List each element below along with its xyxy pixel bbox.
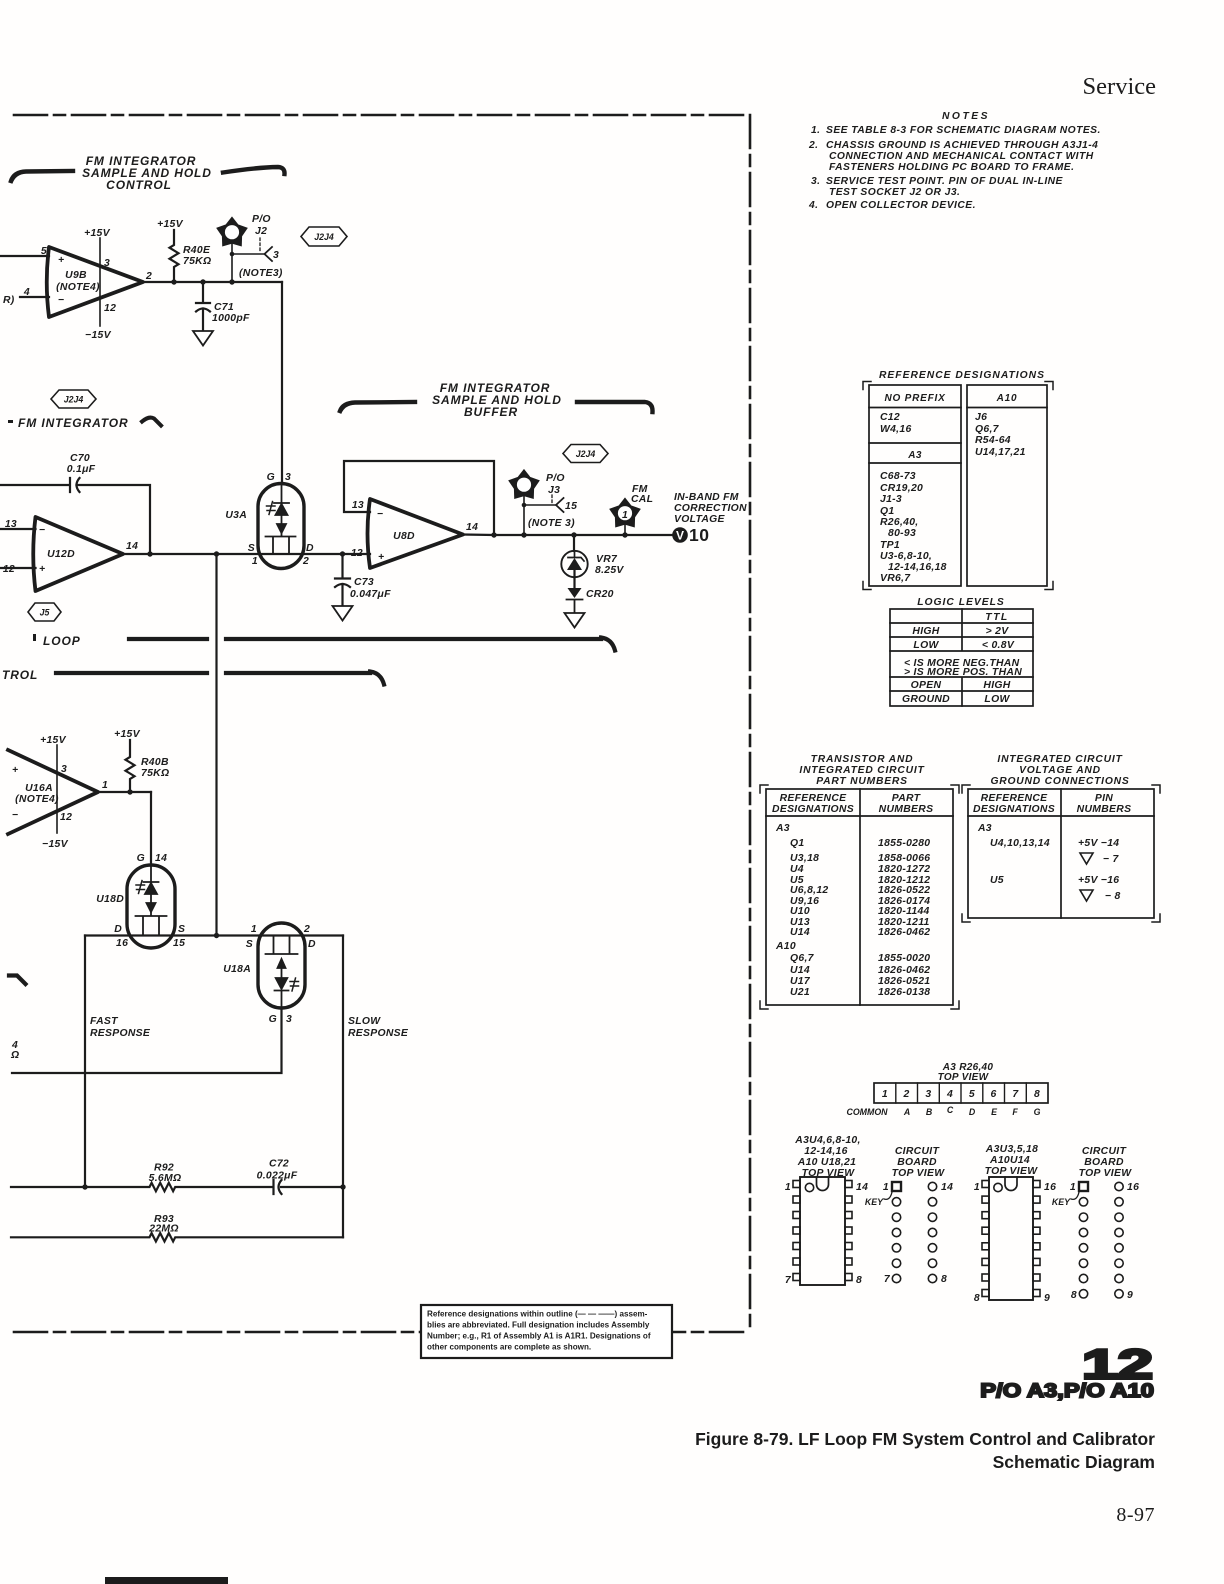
resistor R40E 75K xyxy=(170,230,179,282)
svg-text:1.: 1. xyxy=(811,125,821,136)
svg-text:Number; e.g., R1 of Assembly A: Number; e.g., R1 of Assembly A1 is A1R1.… xyxy=(427,1332,651,1341)
svg-text:22MΩ: 22MΩ xyxy=(148,1224,179,1235)
svg-text:U17: U17 xyxy=(790,976,811,987)
wire pin 5 input U9B xyxy=(0,255,49,257)
svg-text:J5: J5 xyxy=(40,608,50,618)
svg-text:3: 3 xyxy=(285,472,291,483)
svg-text:DESIGNATIONS: DESIGNATIONS xyxy=(973,804,1055,815)
svg-text:R26,40,: R26,40, xyxy=(880,517,919,528)
svg-text:J1-3: J1-3 xyxy=(880,494,902,505)
svg-text:SLOW: SLOW xyxy=(348,1016,381,1027)
svg-text:U4: U4 xyxy=(790,864,804,875)
svg-text:R92: R92 xyxy=(154,1163,174,1174)
svg-text:16: 16 xyxy=(1127,1182,1139,1193)
svg-text:(NOTE4): (NOTE4) xyxy=(15,794,59,805)
svg-text:+: + xyxy=(378,552,384,563)
svg-text:1826-0462: 1826-0462 xyxy=(878,965,930,976)
node junction dots xyxy=(171,279,234,284)
svg-text:TP1: TP1 xyxy=(880,540,900,551)
svg-text:15: 15 xyxy=(565,501,577,512)
svg-text:0.047μF: 0.047μF xyxy=(350,589,391,600)
svg-text:OPEN: OPEN xyxy=(911,680,942,691)
svg-text:P/O: P/O xyxy=(546,473,565,484)
wire pin 13 input U12D xyxy=(0,528,36,530)
svg-text:1820-1272: 1820-1272 xyxy=(878,864,930,875)
svg-text:A: A xyxy=(903,1107,910,1117)
svg-text:U5: U5 xyxy=(990,875,1004,886)
svg-text:14: 14 xyxy=(155,853,167,864)
svg-text:8: 8 xyxy=(1071,1290,1077,1301)
signal flag V10 xyxy=(672,527,688,543)
svg-text:14: 14 xyxy=(466,522,478,533)
wire pin 4 input U9B xyxy=(20,296,49,298)
svg-text:LOW: LOW xyxy=(913,640,939,651)
svg-text:TOP VIEW: TOP VIEW xyxy=(985,1166,1039,1177)
svg-text:J2: J2 xyxy=(255,226,267,237)
op-amp U8D xyxy=(368,499,464,568)
svg-text:BUFFER: BUFFER xyxy=(464,405,518,419)
feedback wire U8D pin13 xyxy=(344,461,494,535)
svg-text:LOW: LOW xyxy=(984,694,1010,705)
svg-text:12-14,16: 12-14,16 xyxy=(804,1146,847,1157)
svg-text:VR7: VR7 xyxy=(596,554,618,565)
svg-text:1: 1 xyxy=(102,780,108,791)
svg-text:J3: J3 xyxy=(548,485,560,496)
svg-text:4: 4 xyxy=(23,287,30,298)
svg-text:12: 12 xyxy=(351,548,363,559)
svg-text:S: S xyxy=(248,543,255,554)
svg-text:+15V: +15V xyxy=(84,228,111,239)
capacitor C70 0.1uF feedback xyxy=(0,478,150,554)
svg-text:CR20: CR20 xyxy=(586,589,614,600)
svg-text:R40E: R40E xyxy=(183,245,211,256)
svg-text:5: 5 xyxy=(41,246,47,257)
svg-text:9: 9 xyxy=(1127,1290,1133,1301)
svg-text:BOARD: BOARD xyxy=(897,1157,937,1168)
svg-text:NUMBERS: NUMBERS xyxy=(1077,804,1132,815)
svg-text:PIN: PIN xyxy=(1095,793,1113,804)
heading FM INTEGRATOR SAMPLE AND HOLD BUFFER xyxy=(432,381,562,419)
svg-text:+15V: +15V xyxy=(157,219,184,230)
svg-text:9: 9 xyxy=(1044,1293,1050,1304)
svg-text:P/O: P/O xyxy=(252,214,271,225)
svg-text:VOLTAGE AND: VOLTAGE AND xyxy=(1019,765,1101,776)
svg-text:U4,10,13,14: U4,10,13,14 xyxy=(990,838,1050,849)
svg-text:U6,8,12: U6,8,12 xyxy=(790,885,829,896)
svg-text:75KΩ: 75KΩ xyxy=(183,256,211,267)
svg-text:U18A: U18A xyxy=(223,964,251,975)
svg-text:C73: C73 xyxy=(354,577,374,588)
svg-text:U16A: U16A xyxy=(25,783,53,794)
resistor R92 5.6M with capacitor C72 in series xyxy=(11,1180,343,1194)
capacitor C73 0.047uF xyxy=(335,554,350,606)
svg-text:GROUND CONNECTIONS: GROUND CONNECTIONS xyxy=(990,776,1129,787)
connector pin 15 of J3 xyxy=(551,495,553,503)
svg-text:−15V: −15V xyxy=(42,839,69,850)
svg-text:Q1: Q1 xyxy=(790,838,804,849)
circuit board top view (14 pin) xyxy=(892,1146,946,1179)
svg-text:blies are abbreviated. Full de: blies are abbreviated. Full designation … xyxy=(427,1321,650,1330)
svg-text:CR19,20: CR19,20 xyxy=(880,483,923,494)
svg-text:TOP VIEW: TOP VIEW xyxy=(892,1168,946,1179)
svg-text:Q6,7: Q6,7 xyxy=(975,424,1000,435)
svg-text:TEST SOCKET J2 OR J3.: TEST SOCKET J2 OR J3. xyxy=(829,187,960,198)
DIP-14 package top view xyxy=(794,1135,860,1179)
svg-text:Ω: Ω xyxy=(10,1050,19,1061)
svg-text:C70: C70 xyxy=(70,453,90,464)
svg-text:W4,16: W4,16 xyxy=(880,424,912,435)
svg-text:Service: Service xyxy=(1083,73,1157,100)
svg-text:U10: U10 xyxy=(790,906,810,917)
flag J5 hexagon xyxy=(28,603,61,621)
svg-text:B: B xyxy=(926,1107,933,1117)
svg-text:Q6,7: Q6,7 xyxy=(790,953,815,964)
svg-text:+15V: +15V xyxy=(114,729,141,740)
DIP-16 package top view xyxy=(985,1144,1039,1177)
svg-text:Q1: Q1 xyxy=(880,506,894,517)
svg-text:G: G xyxy=(267,472,275,483)
svg-text:U3A: U3A xyxy=(225,510,247,521)
svg-text:R54-64: R54-64 xyxy=(975,435,1011,446)
flag J2J4 hexagon (mid) xyxy=(51,390,96,408)
svg-text:NUMBERS: NUMBERS xyxy=(879,804,934,815)
svg-text:KEY: KEY xyxy=(865,1197,884,1207)
svg-text:3.: 3. xyxy=(811,176,821,187)
wire U9B output node xyxy=(143,281,282,283)
svg-text:12: 12 xyxy=(3,564,15,575)
svg-text:V: V xyxy=(676,529,684,543)
svg-text:LOOP: LOOP xyxy=(43,634,81,648)
svg-text:NO PREFIX: NO PREFIX xyxy=(884,393,946,404)
resistor pack A3 R26,40 top view xyxy=(938,1062,994,1083)
svg-text:(NOTE3): (NOTE3) xyxy=(239,268,283,279)
wire pin 12 input U12D xyxy=(0,567,36,569)
svg-text:1: 1 xyxy=(251,924,257,935)
svg-text:TOP VIEW: TOP VIEW xyxy=(1079,1168,1133,1179)
svg-text:CIRCUIT: CIRCUIT xyxy=(895,1146,941,1157)
svg-text:U14: U14 xyxy=(790,927,810,938)
svg-text:S: S xyxy=(246,939,253,950)
svg-text:REFERENCE: REFERENCE xyxy=(981,793,1049,804)
svg-text:4.: 4. xyxy=(808,200,819,211)
svg-text:> 2V: > 2V xyxy=(986,626,1010,637)
svg-text:1855-0280: 1855-0280 xyxy=(878,838,930,849)
svg-text:CIRCUIT: CIRCUIT xyxy=(1082,1146,1128,1157)
svg-text:4: 4 xyxy=(946,1089,953,1100)
svg-text:8: 8 xyxy=(856,1275,862,1286)
svg-text:13: 13 xyxy=(352,500,364,511)
zener VR7 8.25V xyxy=(573,535,575,551)
wire FET row xyxy=(85,934,343,936)
svg-text:INTEGRATED CIRCUIT: INTEGRATED CIRCUIT xyxy=(997,754,1123,765)
svg-text:SERVICE TEST POINT. PIN OF DUA: SERVICE TEST POINT. PIN OF DUAL IN-LINE xyxy=(826,176,1064,187)
svg-text:1826-0138: 1826-0138 xyxy=(878,987,930,998)
svg-text:3: 3 xyxy=(286,1014,292,1025)
svg-text:U3-6,8-10,: U3-6,8-10, xyxy=(880,551,932,562)
svg-text:14: 14 xyxy=(856,1182,868,1193)
svg-text:U9B: U9B xyxy=(65,270,87,281)
svg-text:TRANSISTOR AND: TRANSISTOR AND xyxy=(811,754,914,765)
svg-text:U21: U21 xyxy=(790,987,810,998)
svg-text:1826-0521: 1826-0521 xyxy=(878,976,930,987)
svg-text:J2J4: J2J4 xyxy=(576,449,596,459)
svg-text:U14,17,21: U14,17,21 xyxy=(975,447,1026,458)
wire U8D output node xyxy=(463,533,672,536)
svg-text:1826-0462: 1826-0462 xyxy=(878,927,930,938)
svg-text:J6: J6 xyxy=(975,412,987,423)
svg-text:C: C xyxy=(947,1105,954,1115)
svg-text:> IS MORE POS. THAN: > IS MORE POS. THAN xyxy=(904,667,1022,678)
svg-text:1: 1 xyxy=(252,556,258,567)
svg-text:14: 14 xyxy=(941,1182,953,1193)
svg-text:S: S xyxy=(178,924,185,935)
FET switch U18A xyxy=(258,923,305,1008)
svg-text:13: 13 xyxy=(5,519,17,530)
svg-text:14: 14 xyxy=(126,541,138,552)
svg-text:12-14,16,18: 12-14,16,18 xyxy=(888,562,947,573)
svg-text:2.: 2. xyxy=(808,140,819,151)
svg-text:0.022μF: 0.022μF xyxy=(257,1171,298,1182)
svg-text:CONTROL: CONTROL xyxy=(106,178,172,192)
svg-text:− 7: − 7 xyxy=(1103,854,1120,865)
svg-text:8: 8 xyxy=(1034,1089,1040,1100)
svg-text:A3: A3 xyxy=(907,450,922,461)
svg-text:TROL: TROL xyxy=(2,668,38,682)
svg-text:J2J4: J2J4 xyxy=(314,232,334,242)
svg-text:J2J4: J2J4 xyxy=(64,395,84,405)
op-amp U12D xyxy=(33,517,123,591)
svg-text:VR6,7: VR6,7 xyxy=(880,573,911,584)
svg-text:VOLTAGE: VOLTAGE xyxy=(674,514,726,525)
svg-text:A10U14: A10U14 xyxy=(989,1155,1030,1166)
svg-text:HIGH: HIGH xyxy=(912,626,939,637)
svg-text:PART: PART xyxy=(892,793,922,804)
svg-text:6: 6 xyxy=(991,1089,997,1100)
svg-text:CORRECTION: CORRECTION xyxy=(674,503,747,514)
circuit board top view (16 pin) xyxy=(1079,1146,1133,1179)
svg-text:1855-0020: 1855-0020 xyxy=(878,953,930,964)
svg-text:+5V −16: +5V −16 xyxy=(1078,875,1119,886)
svg-text:A10: A10 xyxy=(775,941,796,952)
svg-text:15: 15 xyxy=(173,938,185,949)
svg-text:2: 2 xyxy=(903,1089,910,1100)
svg-text:C12: C12 xyxy=(880,412,900,423)
wire U12D output to U3A xyxy=(123,553,370,555)
svg-text:RESPONSE: RESPONSE xyxy=(348,1028,409,1039)
svg-text:75KΩ: 75KΩ xyxy=(141,768,169,779)
flag J2J4 hexagon (buffer) xyxy=(563,445,608,463)
svg-text:R40B: R40B xyxy=(141,757,169,768)
svg-text:12: 12 xyxy=(60,812,72,823)
svg-text:GROUND: GROUND xyxy=(902,694,950,705)
svg-text:−: − xyxy=(12,810,18,821)
test point star P/O J3 xyxy=(509,470,538,498)
svg-text:2: 2 xyxy=(303,924,310,935)
heading FM INTEGRATOR SAMPLE AND HOLD CONTROL xyxy=(82,154,212,192)
svg-text:1: 1 xyxy=(622,510,628,521)
svg-text:LOGIC LEVELS: LOGIC LEVELS xyxy=(917,597,1005,608)
capacitor C71 1000pF xyxy=(196,282,210,331)
svg-text:D: D xyxy=(114,924,122,935)
svg-text:C68-73: C68-73 xyxy=(880,471,916,482)
svg-text:DESIGNATIONS: DESIGNATIONS xyxy=(772,804,854,815)
assembly outline dashed top border xyxy=(14,114,750,117)
svg-text:IN-BAND FM: IN-BAND FM xyxy=(674,492,739,503)
svg-text:A3: A3 xyxy=(977,823,992,834)
svg-text:KEY: KEY xyxy=(1052,1197,1071,1207)
svg-text:7: 7 xyxy=(785,1275,792,1286)
svg-text:RESPONSE: RESPONSE xyxy=(90,1028,151,1039)
wire node to U3A gate xyxy=(281,282,283,484)
svg-text:−: − xyxy=(39,525,45,536)
svg-text:C71: C71 xyxy=(214,302,234,313)
svg-text:R): R) xyxy=(3,295,15,306)
ground below C73 xyxy=(333,606,353,621)
fast response rail xyxy=(84,936,86,1188)
svg-text:Reference designations within: Reference designations within outline (—… xyxy=(427,1310,648,1319)
svg-text:3: 3 xyxy=(273,250,279,261)
svg-text:HIGH: HIGH xyxy=(983,680,1010,691)
svg-text:A3U4,6,8-10,: A3U4,6,8-10, xyxy=(794,1135,860,1146)
svg-text:+: + xyxy=(12,765,18,776)
svg-text:U3,18: U3,18 xyxy=(790,853,819,864)
svg-text:D: D xyxy=(969,1107,976,1117)
wire U16A output xyxy=(98,791,151,793)
svg-text:INTEGRATED CIRCUIT: INTEGRATED CIRCUIT xyxy=(799,765,925,776)
svg-text:BOARD: BOARD xyxy=(1084,1157,1124,1168)
svg-text:FM INTEGRATOR: FM INTEGRATOR xyxy=(18,416,129,430)
svg-text:16: 16 xyxy=(116,938,128,949)
svg-text:CONNECTION AND MECHANICAL CONT: CONNECTION AND MECHANICAL CONTACT WITH xyxy=(829,151,1094,162)
svg-text:3: 3 xyxy=(104,258,110,269)
svg-text:1000pF: 1000pF xyxy=(212,313,250,324)
wire U18A drain to slow-response rail xyxy=(342,936,344,1238)
svg-text:A3U3,5,18: A3U3,5,18 xyxy=(985,1144,1038,1155)
heading LOOP with rule xyxy=(33,634,81,648)
svg-text:A3: A3 xyxy=(775,823,790,834)
FET switch U18D xyxy=(127,865,175,948)
svg-text:D: D xyxy=(306,543,314,554)
svg-text:other components are complete: other components are complete as shown. xyxy=(427,1343,591,1352)
svg-text:7: 7 xyxy=(1012,1089,1019,1100)
wire down from U12D node to FET row xyxy=(215,554,217,936)
svg-text:12: 12 xyxy=(104,303,116,314)
svg-text:U14: U14 xyxy=(790,965,810,976)
svg-text:80-93: 80-93 xyxy=(888,528,916,539)
svg-text:1820-1144: 1820-1144 xyxy=(878,906,930,917)
svg-text:3: 3 xyxy=(61,764,67,775)
FET switch U3A xyxy=(258,484,304,569)
svg-text:TTL: TTL xyxy=(985,612,1009,623)
svg-text:−: − xyxy=(377,509,383,520)
svg-text:U8D: U8D xyxy=(393,531,415,542)
table TRANSISTOR AND INTEGRATED CIRCUIT PART NUMBERS xyxy=(799,754,925,787)
svg-text:D: D xyxy=(308,939,316,950)
diode CR20 xyxy=(573,578,575,589)
heading partial hook bottom-left xyxy=(9,976,26,985)
resistor R40B 75K xyxy=(126,740,135,792)
svg-text:P/O A3,P/O A10: P/O A3,P/O A10 xyxy=(980,1380,1154,1401)
svg-text:−15V: −15V xyxy=(85,330,112,341)
assembly outline dashed right border xyxy=(749,115,752,1332)
bottom edge mark xyxy=(105,1577,228,1584)
wire U18A gate to left xyxy=(12,1008,282,1073)
wire down to U18D gate xyxy=(150,792,152,865)
svg-text:SEE TABLE 8-3 FOR SCHEMATIC DI: SEE TABLE 8-3 FOR SCHEMATIC DIAGRAM NOTE… xyxy=(826,125,1101,136)
svg-text:1: 1 xyxy=(974,1182,980,1193)
svg-text:G: G xyxy=(1034,1107,1041,1117)
svg-text:5: 5 xyxy=(969,1089,975,1100)
svg-text:E: E xyxy=(991,1107,998,1117)
svg-text:1858-0066: 1858-0066 xyxy=(878,853,930,864)
svg-text:10: 10 xyxy=(689,525,709,545)
svg-text:0.1μF: 0.1μF xyxy=(67,464,96,475)
svg-text:8: 8 xyxy=(941,1274,947,1285)
table INTEGRATED CIRCUIT VOLTAGE AND GROUND CONNECTIONS xyxy=(990,754,1129,787)
svg-text:REFERENCE: REFERENCE xyxy=(780,793,848,804)
svg-text:−: − xyxy=(58,295,64,306)
test point star P/O J2 xyxy=(217,218,246,246)
svg-text:5.6MΩ: 5.6MΩ xyxy=(149,1173,182,1184)
connector pin 3 of J2 xyxy=(259,238,261,252)
svg-text:1: 1 xyxy=(1070,1182,1076,1193)
svg-text:(NOTE 3): (NOTE 3) xyxy=(528,518,575,529)
svg-text:C72: C72 xyxy=(269,1159,289,1170)
svg-text:3: 3 xyxy=(925,1089,931,1100)
svg-text:F: F xyxy=(1012,1107,1018,1117)
svg-text:+5V −14: +5V −14 xyxy=(1078,838,1119,849)
svg-text:− 8: − 8 xyxy=(1105,891,1121,902)
assembly outline dashed bottom border xyxy=(14,1331,750,1334)
test point star FM CAL xyxy=(610,499,639,527)
ground below CR20 xyxy=(565,613,585,628)
svg-text:COMMON: COMMON xyxy=(846,1107,888,1117)
svg-text:CAL: CAL xyxy=(631,494,653,505)
svg-text:Figure 8-79. LF Loop FM Syste: Figure 8-79. LF Loop FM System Control a… xyxy=(695,1429,1155,1449)
svg-text:U18D: U18D xyxy=(96,894,124,905)
svg-text:(NOTE4): (NOTE4) xyxy=(56,282,100,293)
svg-text:TOP VIEW: TOP VIEW xyxy=(938,1072,990,1083)
svg-text:16: 16 xyxy=(1044,1182,1056,1193)
svg-text:2: 2 xyxy=(145,271,152,282)
svg-text:8: 8 xyxy=(974,1293,980,1304)
op-amp U16A (partial at page edge) xyxy=(8,750,98,834)
power pins 3/12 U9B xyxy=(99,238,101,326)
resistor R93 22M xyxy=(11,1233,343,1241)
reference designation note box xyxy=(421,1305,672,1358)
flag J2J4 hexagon (top) xyxy=(301,227,347,246)
svg-text:1: 1 xyxy=(882,1089,888,1100)
svg-text:G: G xyxy=(137,853,145,864)
svg-text:+: + xyxy=(39,564,45,575)
svg-text:+15V: +15V xyxy=(40,735,67,746)
svg-text:A10: A10 xyxy=(996,393,1018,404)
svg-text:FASTENERS HOLDING PC BOARD TO: FASTENERS HOLDING PC BOARD TO FRAME. xyxy=(829,162,1074,173)
op-amp U9B xyxy=(47,247,143,317)
svg-text:REFERENCE DESIGNATIONS: REFERENCE DESIGNATIONS xyxy=(879,370,1045,381)
svg-text:A10 U18,21: A10 U18,21 xyxy=(797,1157,856,1168)
svg-text:< 0.8V: < 0.8V xyxy=(982,640,1015,651)
svg-text:OPEN COLLECTOR DEVICE.: OPEN COLLECTOR DEVICE. xyxy=(826,200,976,211)
ground below C71 xyxy=(193,331,213,346)
svg-text:7: 7 xyxy=(884,1274,891,1285)
svg-text:1826-0522: 1826-0522 xyxy=(878,885,930,896)
svg-text:PART NUMBERS: PART NUMBERS xyxy=(816,776,908,787)
svg-text:CHASSIS GROUND IS ACHIEVED THR: CHASSIS GROUND IS ACHIEVED THROUGH A3J1-… xyxy=(826,140,1098,151)
svg-text:2: 2 xyxy=(302,556,309,567)
svg-text:NOTES: NOTES xyxy=(942,111,990,122)
heading (FM) INTEGRATOR partial xyxy=(8,416,129,430)
